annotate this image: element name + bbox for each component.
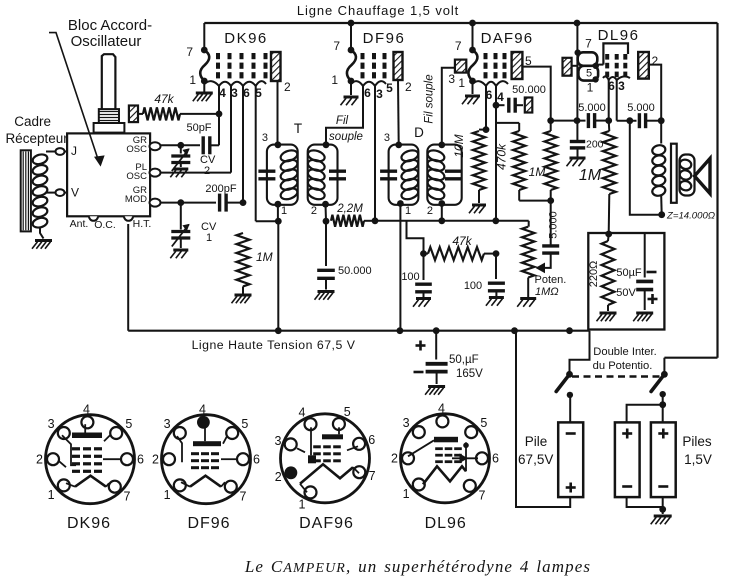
- svg-text:du Potentio.: du Potentio.: [593, 360, 653, 372]
- svg-text:1,5V: 1,5V: [684, 452, 712, 467]
- svg-text:Piles: Piles: [682, 434, 712, 449]
- svg-text:3: 3: [164, 417, 171, 431]
- svg-text:3: 3: [376, 87, 383, 101]
- svg-text:V: V: [71, 186, 79, 200]
- svg-text:Fil: Fil: [336, 115, 349, 127]
- svg-text:5: 5: [480, 416, 487, 430]
- svg-text:5: 5: [344, 405, 351, 419]
- svg-text:Ligne Chauffage 1,5 volt: Ligne Chauffage 1,5 volt: [297, 3, 459, 18]
- svg-text:1: 1: [458, 76, 465, 90]
- svg-text:2: 2: [311, 205, 317, 217]
- svg-text:5: 5: [241, 417, 248, 431]
- svg-text:2: 2: [275, 470, 282, 484]
- svg-text:Cadre: Cadre: [14, 114, 51, 129]
- svg-text:165V: 165V: [456, 368, 483, 380]
- svg-text:Bloc Accord-: Bloc Accord-: [68, 17, 152, 34]
- svg-text:3: 3: [403, 416, 410, 430]
- svg-text:4: 4: [438, 402, 445, 416]
- svg-text:Récepteur: Récepteur: [5, 131, 68, 146]
- svg-text:6: 6: [253, 452, 260, 466]
- svg-text:7: 7: [585, 37, 592, 51]
- svg-text:7: 7: [369, 469, 376, 483]
- svg-text:1M: 1M: [256, 250, 273, 264]
- svg-text:4: 4: [219, 86, 226, 100]
- svg-text:J: J: [71, 144, 77, 158]
- svg-text:3: 3: [48, 417, 55, 431]
- svg-text:T: T: [294, 121, 302, 136]
- svg-text:47k: 47k: [452, 234, 472, 248]
- svg-text:1M: 1M: [529, 165, 546, 179]
- svg-text:67,5V: 67,5V: [518, 452, 553, 467]
- svg-text:DAF96: DAF96: [481, 30, 534, 47]
- svg-text:1: 1: [587, 81, 594, 95]
- svg-text:Ant.: Ant.: [70, 218, 89, 230]
- svg-text:7: 7: [240, 490, 247, 504]
- svg-text:1: 1: [48, 488, 55, 502]
- svg-text:50,µF: 50,µF: [449, 354, 479, 366]
- svg-text:DL96: DL96: [598, 27, 640, 44]
- svg-text:Oscillateur: Oscillateur: [71, 33, 142, 50]
- svg-text:DF96: DF96: [187, 515, 230, 532]
- svg-text:5: 5: [386, 81, 393, 95]
- svg-text:3: 3: [384, 132, 390, 144]
- svg-text:50V: 50V: [616, 287, 636, 299]
- svg-text:7: 7: [455, 39, 462, 53]
- svg-text:1MΩ: 1MΩ: [535, 286, 559, 298]
- svg-text:3: 3: [231, 86, 238, 100]
- svg-text:Fil souple: Fil souple: [424, 74, 436, 123]
- svg-text:1: 1: [299, 498, 306, 512]
- svg-text:1: 1: [403, 487, 410, 501]
- svg-text:50.000: 50.000: [512, 84, 546, 96]
- svg-text:4: 4: [299, 406, 306, 420]
- svg-text:100: 100: [464, 280, 482, 292]
- svg-text:OSC: OSC: [126, 171, 147, 182]
- svg-text:200pF: 200pF: [205, 183, 236, 195]
- svg-text:47k: 47k: [154, 92, 174, 106]
- svg-text:DF96: DF96: [363, 30, 406, 47]
- svg-text:1: 1: [405, 205, 411, 217]
- svg-text:2: 2: [204, 165, 210, 177]
- svg-text:3: 3: [448, 72, 455, 86]
- svg-text:2: 2: [284, 80, 291, 94]
- svg-text:2: 2: [152, 452, 159, 466]
- svg-text:5.000: 5.000: [548, 211, 560, 239]
- svg-text:7: 7: [479, 489, 486, 503]
- svg-text:4: 4: [199, 403, 206, 417]
- svg-text:2,2M: 2,2M: [336, 203, 363, 215]
- svg-text:7: 7: [124, 490, 131, 504]
- svg-text:6: 6: [368, 433, 375, 447]
- svg-text:100: 100: [401, 271, 419, 283]
- svg-text:2: 2: [427, 205, 433, 217]
- svg-text:10M: 10M: [452, 134, 466, 157]
- svg-text:5.000: 5.000: [627, 102, 655, 114]
- svg-text:1: 1: [164, 488, 171, 502]
- svg-text:DK96: DK96: [67, 515, 111, 532]
- svg-text:470k: 470k: [495, 143, 509, 170]
- svg-text:Ligne Haute Tension 67,5 V: Ligne Haute Tension 67,5 V: [192, 338, 356, 352]
- svg-text:7: 7: [186, 45, 193, 59]
- svg-text:1: 1: [189, 73, 196, 87]
- svg-text:5: 5: [586, 68, 592, 80]
- svg-text:3: 3: [262, 132, 268, 144]
- svg-text:6: 6: [137, 452, 144, 466]
- svg-text:3: 3: [618, 79, 625, 93]
- svg-text:6: 6: [492, 452, 499, 466]
- svg-text:7: 7: [333, 39, 340, 53]
- svg-text:50pF: 50pF: [186, 122, 211, 134]
- svg-text:220Ω: 220Ω: [588, 261, 600, 288]
- svg-text:4: 4: [497, 90, 504, 104]
- svg-text:DK96: DK96: [224, 30, 268, 47]
- svg-text:DL96: DL96: [425, 515, 467, 532]
- svg-text:souple: souple: [329, 131, 363, 143]
- svg-text:MOD: MOD: [125, 194, 147, 205]
- svg-text:Double Inter.: Double Inter.: [593, 346, 656, 358]
- svg-text:1: 1: [281, 205, 287, 217]
- svg-text:5.000: 5.000: [578, 102, 606, 114]
- svg-text:6: 6: [364, 86, 371, 100]
- svg-text:D: D: [414, 125, 424, 140]
- svg-text:50µF: 50µF: [616, 267, 642, 279]
- svg-text:2: 2: [405, 80, 412, 94]
- svg-text:Poten.: Poten.: [535, 274, 567, 286]
- svg-text:1: 1: [206, 232, 212, 244]
- svg-text:H.T.: H.T.: [133, 218, 152, 230]
- svg-text:OSC: OSC: [126, 144, 147, 155]
- svg-text:4: 4: [83, 403, 90, 417]
- svg-text:3: 3: [274, 434, 281, 448]
- svg-text:200: 200: [586, 139, 604, 151]
- svg-text:1M: 1M: [579, 167, 602, 184]
- svg-text:2: 2: [391, 452, 398, 466]
- svg-text:50.000: 50.000: [338, 265, 372, 277]
- svg-text:O.C.: O.C.: [94, 219, 116, 231]
- svg-text:1: 1: [331, 73, 338, 87]
- svg-text:5: 5: [125, 417, 132, 431]
- svg-text:DAF96: DAF96: [299, 515, 354, 532]
- svg-text:Pile: Pile: [525, 434, 548, 449]
- svg-text:6: 6: [243, 86, 250, 100]
- svg-text:2: 2: [36, 452, 43, 466]
- svg-text:2: 2: [652, 54, 659, 68]
- svg-text:Z=14.000Ω: Z=14.000Ω: [666, 211, 715, 222]
